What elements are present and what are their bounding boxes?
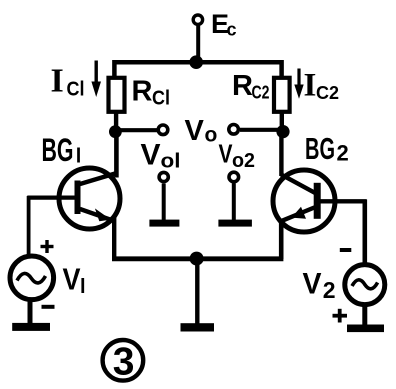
- wire BG1 base: [27, 196, 76, 200]
- terminal Vo right: [229, 125, 239, 135]
- wire RC1 to node: [114, 112, 118, 128]
- label IC1: [51, 63, 85, 101]
- resistor RC2: [274, 78, 290, 112]
- svg-text:R: R: [232, 70, 253, 102]
- svg-text:2: 2: [337, 141, 349, 166]
- junction node 2: [276, 125, 289, 138]
- svg-text:c: c: [227, 20, 237, 40]
- ground V2: [347, 304, 384, 332]
- wire node2 to terminal: [240, 128, 280, 132]
- svg-text:3: 3: [113, 341, 135, 384]
- ground main: [181, 323, 215, 331]
- label Vo1: [141, 139, 181, 173]
- wire RC2 to node: [280, 112, 284, 128]
- junction emitter bus: [190, 252, 204, 266]
- label Vo: [185, 115, 218, 147]
- wire BG2 emitter: [279, 220, 284, 259]
- svg-text:V: V: [185, 115, 205, 147]
- ground small right: [218, 220, 252, 227]
- svg-text:l: l: [80, 276, 86, 298]
- svg-text:o: o: [205, 124, 218, 147]
- svg-text:V: V: [63, 262, 81, 297]
- svg-text:BG: BG: [305, 131, 335, 166]
- wire EC to bus: [196, 26, 200, 64]
- current arrow IC1: [91, 61, 101, 98]
- wire bus to ground: [195, 258, 199, 324]
- svg-text:Cl: Cl: [152, 88, 170, 110]
- ground V1: [12, 299, 50, 331]
- label RC2: [232, 70, 270, 103]
- wire V2 to base: [362, 200, 367, 267]
- label V2: [303, 267, 336, 303]
- terminal Vo left: [158, 125, 168, 135]
- resistor RC1: [109, 78, 125, 112]
- svg-text:I: I: [51, 63, 64, 100]
- source V1: [10, 256, 54, 300]
- svg-text:l: l: [76, 146, 82, 168]
- wire BG2 base: [320, 199, 367, 203]
- label BG1: [42, 132, 82, 168]
- emitter bus wire: [112, 256, 283, 261]
- current arrow IC2: [294, 69, 303, 99]
- figure number 3: [103, 340, 144, 384]
- ground small left: [149, 220, 179, 227]
- transistor BG2: [273, 170, 335, 232]
- wire node1 to terminal: [118, 128, 157, 132]
- svg-text:V: V: [141, 139, 161, 172]
- terminal ground left: [159, 172, 168, 181]
- junction node 1: [109, 125, 122, 138]
- wire BG2 collector: [279, 134, 283, 176]
- wire terminal to ground left: [162, 183, 166, 221]
- minus V2: [340, 248, 352, 252]
- label BG2: [305, 131, 349, 166]
- plus V1: [41, 240, 54, 253]
- label EC: [211, 9, 237, 40]
- svg-text:C2: C2: [316, 83, 339, 103]
- junction top: [189, 55, 203, 69]
- label V1: [63, 262, 86, 299]
- svg-text:I: I: [304, 68, 317, 104]
- minus V1: [42, 305, 55, 309]
- svg-text:2: 2: [323, 277, 336, 303]
- svg-text:o2: o2: [232, 150, 255, 172]
- wire BG1 collector: [114, 134, 119, 178]
- svg-text:BG: BG: [42, 132, 74, 168]
- svg-text:V: V: [303, 267, 322, 300]
- wire BG1 emitter: [112, 217, 116, 259]
- svg-text:V: V: [219, 139, 234, 169]
- terminal ground right: [229, 172, 239, 182]
- wire V1 to base: [27, 196, 31, 257]
- terminal EC: [193, 15, 202, 24]
- label RC1: [132, 76, 171, 110]
- wire terminal to ground right: [232, 183, 236, 221]
- svg-text:C2: C2: [252, 83, 270, 103]
- svg-text:R: R: [132, 76, 153, 108]
- plus V2: [333, 309, 348, 323]
- svg-text:Cl: Cl: [67, 79, 85, 101]
- label Vo2: [219, 139, 256, 173]
- transistor BG1: [59, 168, 120, 229]
- source V2: [345, 265, 385, 305]
- top bus wire: [114, 62, 281, 79]
- label IC2: [304, 68, 340, 104]
- svg-text:ol: ol: [161, 151, 181, 173]
